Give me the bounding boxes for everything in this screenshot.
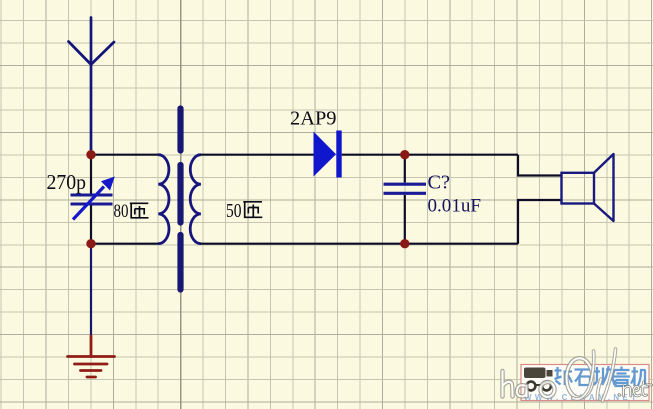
label 50匝: [226, 201, 262, 222]
junction dot bottom-left: [86, 239, 95, 248]
watermark .net: [619, 382, 652, 396]
wire left vertical (junction to junction through C1): [90, 155, 92, 244]
svg-text:0.01uF: 0.01uF: [428, 196, 482, 217]
watermark haoDiY.net: [503, 349, 652, 401]
variable capacitor C1 plates: [71, 195, 113, 204]
wire step to speaker top: [518, 155, 562, 176]
svg-text:270p: 270p: [47, 170, 87, 194]
wire bottom-left rail: [91, 243, 159, 245]
watermark logo box: [521, 365, 649, 403]
svg-text:80: 80: [114, 201, 129, 222]
diode D1 2AP9: [314, 131, 342, 178]
transformer T1 left winding: [158, 155, 169, 244]
logo text 矿石收音机: [555, 366, 648, 386]
label 80匝: [114, 201, 149, 222]
speaker LS1 box: [562, 173, 595, 204]
svg-text:50: 50: [226, 201, 242, 222]
antenna E1: [69, 18, 115, 155]
wire bottom rail: [201, 243, 519, 245]
svg-text:2AP9: 2AP9: [290, 108, 337, 130]
speaker LS1 horn: [594, 154, 614, 221]
矿: [555, 367, 573, 385]
capacitor C? branch wire upper: [404, 155, 406, 183]
junction dot top-right: [400, 150, 409, 159]
svg-text:C?: C?: [428, 172, 451, 194]
logo vehicle icon: [524, 368, 553, 391]
wire ground stem: [90, 244, 92, 336]
wire top rail left of diode: [201, 154, 314, 156]
junction dot top-left: [86, 150, 95, 159]
variable capacitor C1 arrow: [73, 177, 115, 220]
wire top rail right of diode: [342, 154, 518, 156]
机: [631, 367, 648, 386]
capacitor C? branch wire lower: [404, 195, 406, 244]
石: [575, 370, 592, 386]
transformer T1 right winding: [190, 155, 201, 244]
ground symbol: [68, 336, 115, 377]
wire step to speaker bottom: [518, 200, 562, 244]
junction dot bottom-right: [400, 239, 409, 248]
watermark slashes: [573, 349, 616, 401]
wire top-left rail: [91, 154, 159, 156]
音: [613, 367, 630, 387]
收: [594, 366, 615, 386]
transformer T1 core: [177, 109, 183, 290]
capacitor C? plates: [384, 184, 427, 193]
